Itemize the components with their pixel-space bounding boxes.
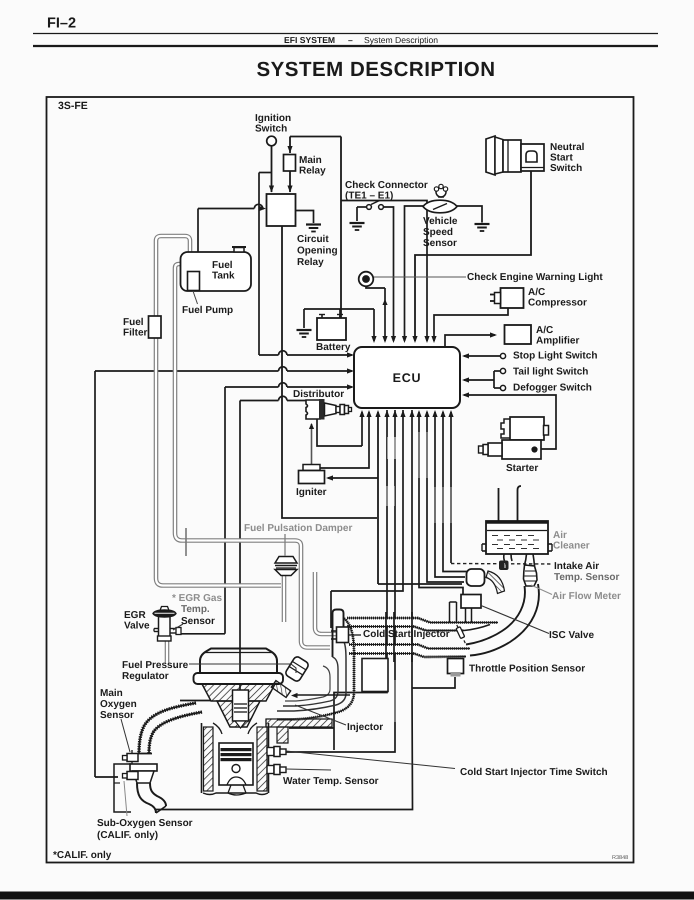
svg-text:ECU: ECU: [393, 371, 422, 385]
svg-text:Cold Start Injector: Cold Start Injector: [363, 629, 450, 640]
svg-text:Air: Air: [553, 530, 567, 541]
svg-text:Switch: Switch: [255, 124, 287, 135]
svg-text:*CALIF. only: *CALIF. only: [53, 850, 112, 861]
svg-text:Main: Main: [100, 688, 123, 699]
svg-text:3S-FE: 3S-FE: [58, 100, 88, 112]
svg-text:Compressor: Compressor: [528, 298, 587, 309]
svg-text:Defogger Switch: Defogger Switch: [513, 383, 592, 394]
svg-text:FI–2: FI–2: [47, 16, 76, 32]
svg-text:Circuit: Circuit: [297, 234, 329, 245]
svg-text:Vehicle: Vehicle: [423, 216, 458, 227]
svg-text:Valve: Valve: [124, 621, 150, 632]
svg-text:Tail light Switch: Tail light Switch: [513, 367, 588, 378]
svg-text:Fuel Pressure: Fuel Pressure: [122, 660, 189, 671]
svg-text:A/C: A/C: [528, 287, 545, 298]
svg-text:–: –: [348, 35, 353, 45]
svg-text:Sensor: Sensor: [181, 616, 215, 627]
svg-text:Fuel Pulsation Damper: Fuel Pulsation Damper: [244, 523, 352, 534]
svg-text:Fuel: Fuel: [212, 260, 233, 271]
svg-text:Starter: Starter: [506, 463, 538, 474]
svg-text:(CALIF. only): (CALIF. only): [97, 830, 158, 841]
svg-text:Distributor: Distributor: [293, 389, 344, 400]
svg-text:SYSTEM DESCRIPTION: SYSTEM DESCRIPTION: [256, 58, 495, 81]
svg-text:EGR: EGR: [124, 610, 146, 621]
svg-text:ISC Valve: ISC Valve: [549, 630, 594, 641]
svg-text:R3848: R3848: [612, 855, 628, 861]
svg-text:Sub-Oxygen Sensor: Sub-Oxygen Sensor: [97, 818, 193, 829]
svg-text:Switch: Switch: [550, 163, 582, 174]
svg-text:Start: Start: [550, 153, 573, 164]
svg-text:Temp. Sensor: Temp. Sensor: [554, 572, 619, 583]
svg-text:Ignition: Ignition: [255, 113, 291, 124]
svg-text:Main: Main: [299, 155, 322, 166]
svg-text:Tank: Tank: [212, 271, 235, 282]
svg-text:System Description: System Description: [364, 35, 438, 45]
svg-text:Injector: Injector: [347, 722, 383, 733]
svg-text:Cleaner: Cleaner: [553, 541, 590, 552]
svg-text:Battery: Battery: [316, 342, 351, 353]
svg-text:Check Engine Warning Light: Check Engine Warning Light: [467, 272, 603, 283]
svg-text:Temp.: Temp.: [181, 604, 210, 615]
svg-text:Sensor: Sensor: [100, 710, 134, 721]
svg-text:Igniter: Igniter: [296, 487, 327, 498]
svg-text:Regulator: Regulator: [122, 671, 169, 682]
svg-text:Oxygen: Oxygen: [100, 699, 137, 710]
svg-text:Fuel Pump: Fuel Pump: [182, 305, 233, 316]
svg-text:Relay: Relay: [297, 257, 324, 268]
svg-text:Check Connector: Check Connector: [345, 180, 428, 191]
svg-text:Relay: Relay: [299, 166, 326, 177]
svg-text:Fuel: Fuel: [123, 317, 144, 328]
svg-text:Opening: Opening: [297, 246, 338, 257]
svg-text:Stop Light Switch: Stop Light Switch: [513, 351, 597, 362]
svg-text:Water Temp. Sensor: Water Temp. Sensor: [283, 776, 379, 787]
svg-text:Cold Start Injector Time Switc: Cold Start Injector Time Switch: [460, 767, 608, 778]
svg-text:Throttle Position Sensor: Throttle Position Sensor: [469, 664, 585, 675]
svg-text:Speed: Speed: [423, 227, 453, 238]
svg-text:A/C: A/C: [536, 325, 553, 336]
svg-text:(TE1 – E1): (TE1 – E1): [345, 191, 393, 202]
svg-text:Neutral: Neutral: [550, 142, 585, 153]
svg-text:Intake Air: Intake Air: [554, 561, 599, 572]
svg-text:Amplifier: Amplifier: [536, 336, 579, 347]
svg-text:Air Flow Meter: Air Flow Meter: [552, 591, 621, 602]
svg-text:Sensor: Sensor: [423, 238, 457, 249]
svg-text:* EGR Gas: * EGR Gas: [172, 593, 222, 604]
svg-text:EFI SYSTEM: EFI SYSTEM: [284, 35, 335, 45]
svg-text:Filter: Filter: [123, 328, 148, 339]
